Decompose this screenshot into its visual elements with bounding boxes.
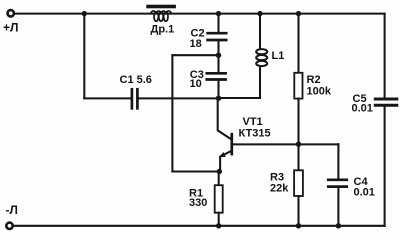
wire R3 bottom lead (297, 196, 299, 226)
choke Dr.1 core bar (146, 5, 176, 9)
wire emitter to R1 (218, 172, 220, 186)
svg-text:330: 330 (189, 197, 207, 209)
node R2 top (296, 11, 301, 16)
svg-text:18: 18 (190, 38, 202, 50)
svg-text:КТ315: КТ315 (239, 128, 271, 140)
wire C1 left lead (84, 97, 131, 99)
svg-text:10: 10 (190, 78, 202, 90)
node tank/collector junction (216, 96, 221, 101)
resistor R2 (294, 73, 302, 99)
resistor R1 (215, 185, 223, 213)
wire right side lower (384, 107, 386, 226)
node L1 top (257, 11, 262, 16)
wire left drop (83, 14, 85, 99)
wire top rail (14, 13, 385, 15)
capacitor C4 (328, 180, 347, 187)
svg-text:0.01: 0.01 (354, 186, 375, 198)
transistor VT1 base bar (230, 134, 233, 154)
wire R1 bottom lead (218, 213, 220, 226)
transistor VT1 emitter (220, 151, 231, 171)
wire R2 bottom lead (297, 99, 299, 145)
wire bottom rail (13, 225, 385, 227)
wire C4 bottom lead (337, 188, 339, 226)
wire C2 top lead (217, 14, 219, 32)
capacitor C5 (375, 99, 397, 105)
transistor VT1 base wire (233, 143, 338, 145)
transistor VT1 emitter arrow (219, 152, 226, 157)
capacitor C1 (132, 89, 138, 108)
wire R2 top lead (297, 14, 299, 73)
inductor L1 (256, 14, 267, 98)
node C4 bottom (336, 223, 341, 228)
wire feedback top (172, 54, 218, 56)
node C2/C3 junction (216, 53, 221, 58)
wire C2 to C3 (217, 41, 219, 72)
node emitter junction (217, 169, 222, 174)
node top-left junction (82, 11, 87, 16)
wire C1 right lead (139, 97, 219, 99)
node base junction (296, 142, 301, 147)
svg-text:100k: 100k (307, 85, 332, 97)
node R1 bottom (216, 223, 221, 228)
transistor VT1 collector lead (218, 98, 231, 139)
wire feedback bottom (172, 170, 219, 172)
svg-text:-Л: -Л (6, 203, 18, 217)
node C2 top (216, 11, 221, 16)
wire feedback vertical (171, 55, 173, 171)
svg-text:0.01: 0.01 (352, 103, 373, 115)
capacitor C3 (207, 73, 226, 79)
svg-text:22k: 22k (270, 183, 289, 195)
node R3 bottom (296, 223, 301, 228)
terminal -L (6, 223, 12, 229)
svg-text:R2: R2 (307, 74, 321, 86)
resistor R3 (294, 170, 303, 196)
choke Dr.1 loops (151, 11, 172, 21)
svg-text:+Л: +Л (3, 20, 18, 34)
svg-text:Др.1: Др.1 (151, 24, 175, 36)
svg-text:VT1: VT1 (243, 116, 263, 128)
wire right side upper (384, 14, 386, 98)
wire C3 bottom lead (217, 81, 219, 99)
svg-text:C1 5.6: C1 5.6 (120, 74, 152, 86)
capacitor C2 (208, 33, 227, 40)
wire C4 top lead (337, 144, 339, 178)
terminal +L (8, 10, 14, 16)
svg-text:L1: L1 (272, 50, 285, 62)
wire R3 top lead (297, 144, 299, 170)
wire tank to L1 (219, 97, 261, 99)
